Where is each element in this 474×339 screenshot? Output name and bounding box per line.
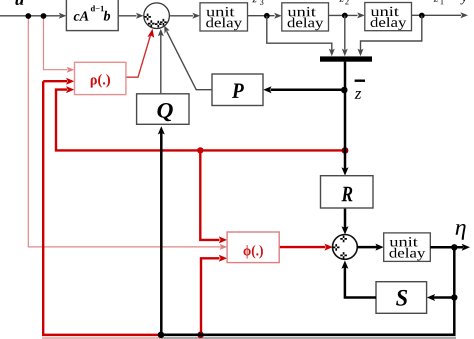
box cA^(d-1)b: [66, 0, 118, 31]
label y clipped: [460, 0, 467, 4]
label z bar: [355, 80, 365, 82]
plus signs junction 1: [144, 14, 151, 21]
box S: [376, 282, 427, 314]
wire u input: [0, 15, 60, 17]
node dot eta: [451, 244, 457, 250]
box phi(.): [227, 232, 279, 263]
black wire: eta node down to S input: [434, 247, 455, 297]
node dot after unit delay 1: [264, 13, 270, 19]
wire pink: u tap node 2 down to rho input 1: [44, 16, 68, 70]
wire pink: u tap node 1 down and across to phi input 2: [28, 16, 221, 247]
box unit delay 2: [282, 3, 329, 31]
red wire: bottom bus up to phi input 3: [201, 258, 220, 335]
wire P to junction 1 diagonal: [167, 31, 212, 89]
black wire: z node to P: [271, 88, 346, 91]
black wire: S output to junction 2: [345, 267, 376, 298]
black wire: eta node down to bottom bus: [161, 298, 454, 335]
red wire: branch down to phi input 1: [200, 150, 219, 240]
box Q: [137, 94, 189, 125]
dark red dot on bottom bus: [197, 332, 204, 339]
box P: [212, 74, 263, 106]
black wire: R to junction 2: [344, 208, 347, 228]
black wire: unit delay 4 to eta node and output arrow: [430, 246, 463, 249]
label z_2 clipped: [339, 0, 343, 2]
node dot after unit delay 2: [342, 13, 348, 19]
black wire: junction 2 to unit delay 4: [357, 246, 377, 249]
box R: [321, 176, 374, 208]
black wire: z node down to R: [344, 90, 347, 169]
label z_1 clipped: [434, 0, 438, 2]
wire rho output to junction 1 (red diagonal): [126, 34, 151, 78]
wire tap node3 down to bar: [361, 16, 422, 51]
black wire: bar down to z node: [344, 62, 347, 90]
node dot z: [341, 87, 348, 94]
red wire: phi output to junction 2: [279, 246, 325, 248]
shadow strip under bottom bus (pink part): [42, 337, 161, 339]
dark red junction dot at black vertical: [342, 147, 349, 154]
node dot bottom bus left: [158, 332, 165, 339]
label u: [15, 0, 23, 5]
node dot 2 on u wire: [41, 13, 47, 19]
wire junction 1 to unit delay 1: [169, 15, 193, 17]
red wire: bottom bus up-left to rho input 2: [43, 81, 161, 335]
label z_3 clipped: [252, 0, 256, 2]
node dot S feed: [451, 294, 457, 300]
box unit delay 3: [365, 3, 412, 31]
box rho(.): [75, 62, 126, 94]
shadow strip under bottom bus (gray part): [161, 337, 456, 339]
plus signs junction 2: [340, 236, 347, 243]
summing junction 2: [333, 235, 358, 260]
summing junction 1: [144, 3, 170, 29]
box unit delay 4: [384, 233, 431, 262]
red junction dot on long line: [197, 147, 203, 153]
wire unit delay 3 to output y: [412, 14, 462, 16]
wire unit delay 2 to unit delay 3: [329, 14, 358, 16]
label eta: [456, 224, 466, 240]
wire unit delay 1 to unit delay 2: [248, 15, 275, 17]
black wire: bottom bus up to Q: [160, 133, 163, 335]
collector bar: [320, 56, 372, 61]
red wire: rho input 3 and long line to R node: [56, 90, 344, 151]
wire cA box to summing junction 1: [118, 15, 136, 17]
wire tap node1 down to bar: [267, 16, 332, 51]
wire Q up to junction 1: [160, 33, 162, 94]
node dot 1 on u wire: [25, 13, 31, 19]
node dot after unit delay 3: [419, 13, 425, 19]
box unit delay 1: [200, 3, 248, 31]
wire tap node2 down to bar: [344, 16, 346, 50]
